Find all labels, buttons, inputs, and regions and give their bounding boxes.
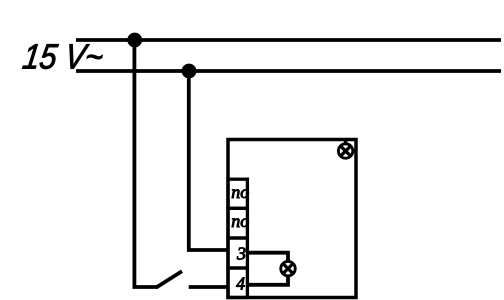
label: supply voltage 15 V~ [20,38,105,77]
svg-text:15 V~: 15 V~ [20,38,105,77]
label: terminal 1 "по" [231,182,249,202]
wire: stub lamp HL1 to box right edge [346,149,355,153]
terminal square 1 [228,179,247,208]
svg-text:3: 3 [236,244,246,264]
label: terminal 4 "4" [236,273,245,293]
terminal square 3 [228,238,247,268]
svg-text:по: по [231,211,249,231]
lamp HL1 indicator in box corner [338,144,352,158]
wire: drop from L1 to switch left lead [134,40,157,287]
svg-text:4: 4 [236,273,245,293]
label: terminal 2 "по" [231,211,249,231]
wire: stub lamp HL1 to box top edge [344,140,348,151]
label: terminal 3 "3" [236,244,246,264]
node: junction of L2 and drop wire [182,64,197,79]
svg-text:по: по [231,182,249,202]
wire: terminal 3 to lamp HL2 [247,253,288,261]
wire: top supply line L1 [76,38,501,42]
node: junction of L1 and drop wire [127,33,142,48]
device box U1 [228,140,356,298]
wire: drop from L2 to terminal 3 [189,71,229,250]
wire: switch to terminal 4 [189,285,229,289]
wire: lamp HL2 to terminal 4 [247,276,288,285]
terminal square 4 [228,268,247,298]
terminal square 2 [228,208,247,238]
lamp HL2 between terminals 3 and 4 [281,261,295,275]
wire: bottom supply line L2 [76,69,501,73]
switch SA1 open blade [156,271,182,287]
